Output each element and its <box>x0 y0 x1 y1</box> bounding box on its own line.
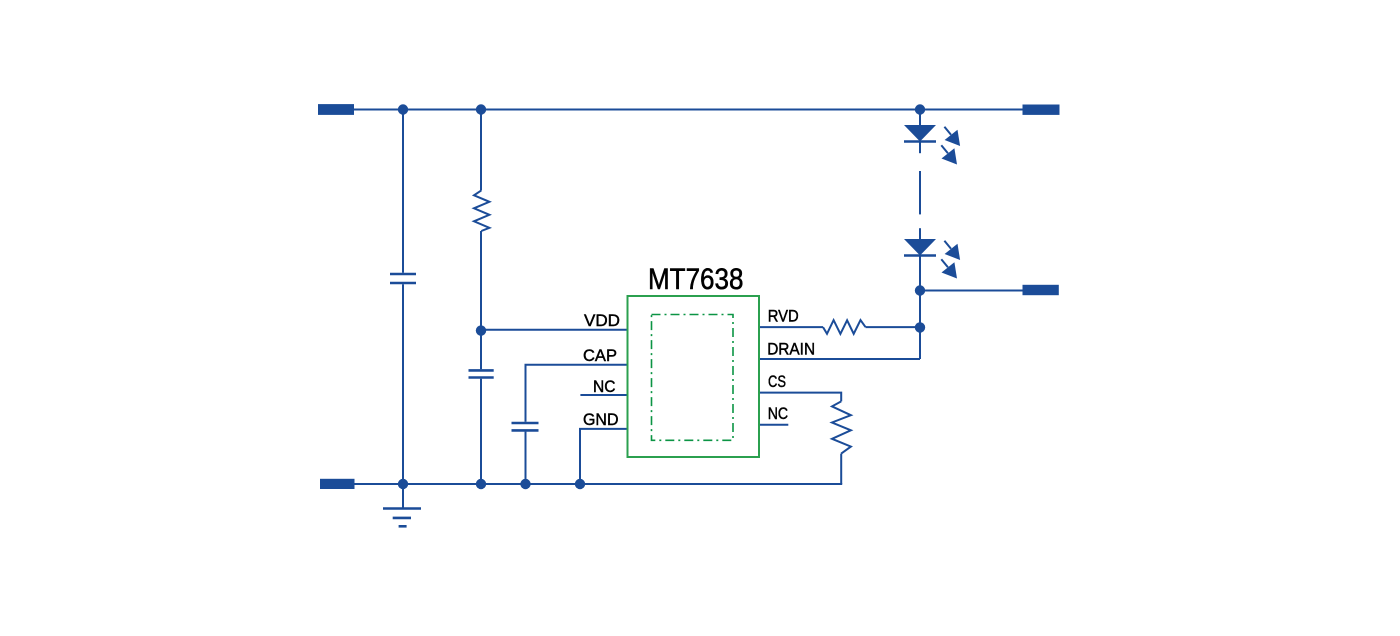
svg-text:RVD: RVD <box>768 307 799 326</box>
svg-text:DRAIN: DRAIN <box>767 340 815 359</box>
svg-text:VDD: VDD <box>584 311 620 330</box>
svg-text:CS: CS <box>768 372 786 391</box>
svg-text:GND: GND <box>583 410 619 429</box>
svg-text:CAP: CAP <box>583 346 617 365</box>
svg-text:MT7638: MT7638 <box>648 263 744 296</box>
svg-text:NC: NC <box>593 377 616 396</box>
svg-text:NC: NC <box>768 404 788 423</box>
